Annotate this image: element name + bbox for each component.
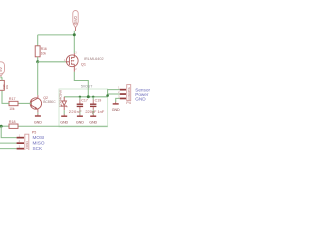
svg-text:3: 3 xyxy=(75,51,77,54)
diode D1 zener xyxy=(61,97,67,110)
svg-text:GND: GND xyxy=(89,121,97,125)
supply 5V0 xyxy=(73,11,78,32)
svg-text:IRLML6402: IRLML6402 xyxy=(84,57,104,61)
node rail junction at C19 xyxy=(92,96,94,98)
wire R17 left to corner up xyxy=(2,91,9,104)
svg-text:2: 2 xyxy=(118,90,120,94)
transistor Q2 BC850C xyxy=(30,95,41,112)
svg-text:3: 3 xyxy=(118,94,120,98)
wire SCK row xyxy=(0,148,17,150)
svg-text:220pF 1nF: 220pF 1nF xyxy=(85,109,104,114)
wire R16 bottom to gate node xyxy=(37,57,39,62)
svg-text:P4: P4 xyxy=(126,101,130,105)
wire gate node down to Q2 collector xyxy=(37,62,39,95)
svg-text:1: 1 xyxy=(118,86,120,90)
wire gate node to MOSFET gate xyxy=(38,61,67,63)
wire junction down to MOSI row xyxy=(1,126,16,137)
svg-text:CON3POL: CON3POL xyxy=(127,86,131,99)
resistor R16 xyxy=(35,46,47,57)
wire R16 top feed xyxy=(37,35,39,46)
wire R15 top to supply xyxy=(1,76,2,80)
wire bottom rail with R18 xyxy=(0,125,9,127)
svg-text:5VOUT: 5VOUT xyxy=(81,84,92,88)
wire MISO row xyxy=(0,142,17,144)
svg-text:SCK: SCK xyxy=(33,146,44,150)
wire output rail xyxy=(64,96,107,98)
ground under C17 xyxy=(76,116,84,124)
wire zener to gnd xyxy=(63,110,65,114)
ground under C19 xyxy=(89,116,97,124)
svg-text:GND: GND xyxy=(60,121,68,125)
node junction at 5V rail xyxy=(73,33,76,36)
svg-text:2: 2 xyxy=(75,68,77,71)
connector P5 SPI xyxy=(0,130,36,151)
capacitor C17 xyxy=(69,97,88,116)
svg-text:R17: R17 xyxy=(9,97,16,101)
node junction bottom-left xyxy=(0,125,3,128)
svg-text:C19: C19 xyxy=(95,98,102,102)
svg-text:GND: GND xyxy=(112,108,120,112)
svg-text:BZX84C5V6: BZX84C5V6 xyxy=(58,90,62,107)
node gate junction xyxy=(36,60,39,63)
supply pill left (cut at edge) xyxy=(0,62,5,76)
svg-text:220nF: 220nF xyxy=(69,109,82,114)
wire pin2 branch xyxy=(108,93,120,95)
resistor R18 xyxy=(9,120,18,128)
svg-text:C17: C17 xyxy=(81,98,88,102)
svg-text:5V: 5V xyxy=(0,67,3,72)
svg-text:1: 1 xyxy=(19,133,21,137)
svg-text:3: 3 xyxy=(19,144,21,148)
svg-text:MISO: MISO xyxy=(33,141,45,146)
connector P4 sensor power xyxy=(118,85,131,105)
frame box (annotation rectangle) xyxy=(59,89,108,127)
wire rail up-corner to connector pin 1 xyxy=(108,90,120,97)
wire MOSFET drain route to rail xyxy=(74,72,88,97)
ground at connector xyxy=(112,104,120,112)
svg-text:R18: R18 xyxy=(9,120,16,124)
svg-text:Q1: Q1 xyxy=(81,63,86,67)
resistor R15 (left edge, vertical) xyxy=(0,80,9,90)
ground under zener xyxy=(60,116,68,124)
svg-text:5V0: 5V0 xyxy=(73,15,78,23)
wire base from R17 xyxy=(18,102,31,104)
svg-text:BC850C: BC850C xyxy=(43,100,56,104)
svg-text:P5: P5 xyxy=(32,130,36,134)
node rail junction at drain feed xyxy=(87,95,90,98)
node rail junction at C17 xyxy=(79,96,81,98)
svg-text:CON3: CON3 xyxy=(25,141,29,149)
svg-text:GND: GND xyxy=(34,120,42,124)
wire top rail from R16 to supply junction xyxy=(38,34,75,36)
svg-text:GND: GND xyxy=(135,97,146,102)
wire pin3 to gnd xyxy=(116,98,120,102)
svg-text:10k: 10k xyxy=(9,107,15,111)
svg-text:10k: 10k xyxy=(5,84,9,89)
transistor Q1 (p-mosfet IRLML6402) xyxy=(66,53,78,72)
wire supply drop to MOSFET source xyxy=(73,31,75,53)
wire Q2 emitter to gnd xyxy=(37,113,39,115)
resistor R17 xyxy=(9,97,18,111)
svg-text:10k: 10k xyxy=(41,51,47,55)
ground under Q2 xyxy=(34,116,42,124)
capacitor C19 xyxy=(85,97,104,116)
svg-text:2: 2 xyxy=(19,139,21,143)
node junction pin2 xyxy=(106,94,109,97)
svg-text:GND: GND xyxy=(76,121,84,125)
svg-text:MOSI: MOSI xyxy=(33,135,45,140)
